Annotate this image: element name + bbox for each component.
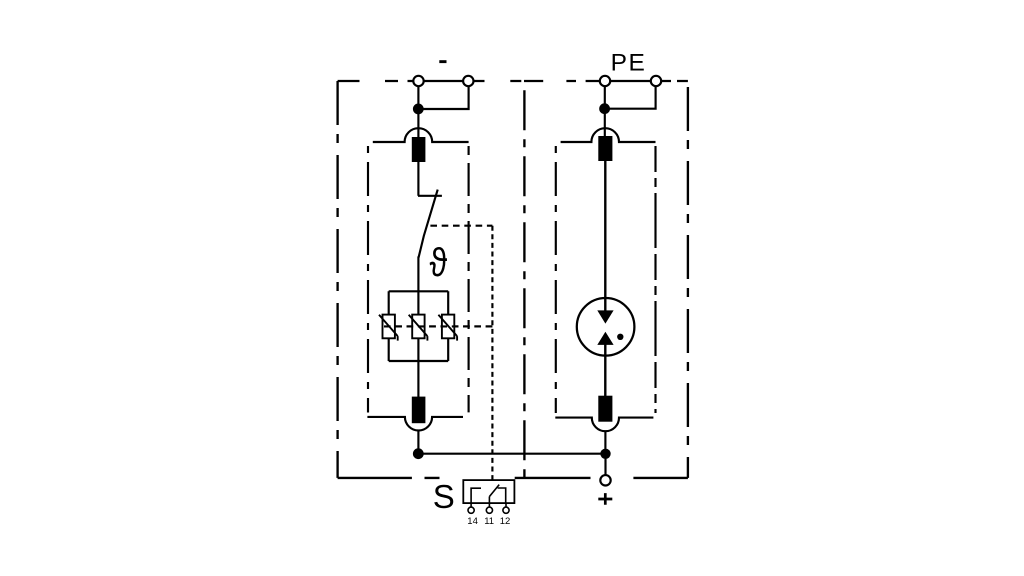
svg-text:PE: PE [611, 50, 647, 77]
svg-text:14: 14 [467, 516, 478, 527]
svg-text:S: S [433, 478, 455, 515]
svg-text:12: 12 [500, 516, 511, 527]
svg-text:ϑ: ϑ [430, 240, 448, 285]
svg-text:11: 11 [484, 516, 494, 527]
